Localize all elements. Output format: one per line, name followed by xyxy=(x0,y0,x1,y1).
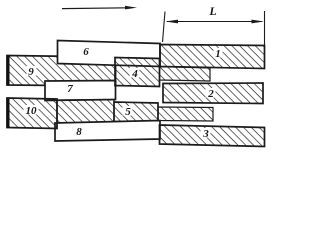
svg-text:10: 10 xyxy=(26,105,38,117)
svg-text:3: 3 xyxy=(202,128,209,140)
svg-text:5: 5 xyxy=(125,106,131,118)
svg-text:1: 1 xyxy=(215,48,221,60)
svg-text:9: 9 xyxy=(28,66,34,78)
svg-text:8: 8 xyxy=(76,126,82,138)
svg-text:7: 7 xyxy=(67,83,73,95)
svg-text:L: L xyxy=(208,4,216,18)
svg-text:6: 6 xyxy=(83,46,89,58)
svg-text:2: 2 xyxy=(207,88,214,100)
svg-text:4: 4 xyxy=(131,68,138,80)
